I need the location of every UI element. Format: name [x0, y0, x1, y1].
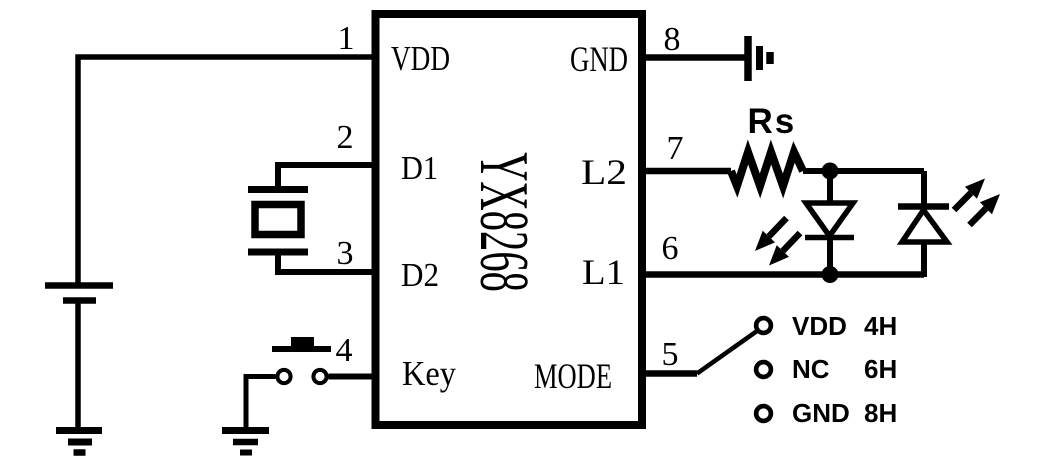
wire pin8 GND — [642, 54, 748, 61]
svg-text:8H: 8H — [864, 398, 897, 428]
svg-text:6: 6 — [662, 230, 679, 267]
wire pin2 D1 to crystal — [278, 165, 375, 190]
wire resistor to LED node — [803, 168, 924, 174]
LED2 cathode bar — [898, 203, 949, 210]
wire pin4 Key to button — [329, 374, 376, 380]
LED1 triangle — [806, 203, 853, 236]
crystal Y1 top plate — [248, 186, 308, 193]
pushbutton S1 bar — [272, 346, 331, 352]
LED2 emission arrow upper — [954, 179, 985, 211]
svg-text:D2: D2 — [401, 257, 439, 294]
wire node to LED1 anode — [827, 171, 833, 205]
svg-text:NC: NC — [792, 354, 830, 384]
ground (pin8, rotated) — [748, 36, 770, 81]
junction node top — [822, 163, 839, 180]
svg-text:7: 7 — [667, 130, 684, 167]
wire button to ground — [246, 377, 276, 431]
IC U1 body — [376, 14, 643, 425]
wire pin7 L2 to resistor — [642, 168, 731, 175]
wire LED1 cathode to L1 — [827, 238, 833, 275]
resistor Rs — [731, 152, 803, 186]
LED1 cathode bar — [805, 235, 854, 241]
crystal Y1 bottom plate — [248, 249, 308, 256]
LED1 emission arrow upper — [755, 218, 787, 251]
switch contact NC — [756, 362, 771, 377]
svg-text:GND: GND — [570, 39, 628, 79]
svg-text:4: 4 — [336, 332, 353, 369]
pushbutton S1 cap — [291, 337, 314, 347]
LED2 triangle — [902, 210, 947, 242]
battery BT1 short plate — [63, 297, 96, 304]
battery BT1 long plate — [45, 282, 113, 289]
svg-text:VDD: VDD — [391, 39, 450, 78]
junction node bottom — [822, 266, 839, 283]
wire L1 line — [642, 271, 924, 278]
wire node to LED2 branch top — [921, 171, 927, 206]
svg-text:GND: GND — [792, 398, 850, 428]
wire pin3 D2 to crystal — [278, 252, 375, 272]
svg-text:1: 1 — [338, 20, 355, 57]
svg-text:MODE: MODE — [534, 356, 612, 396]
crystal Y1 body — [255, 205, 301, 235]
pushbutton S1 left contact — [277, 370, 290, 383]
svg-text:5: 5 — [662, 336, 679, 373]
svg-text:6H: 6H — [864, 354, 897, 384]
ground (battery) — [56, 431, 102, 453]
pushbutton S1 right contact — [313, 370, 326, 383]
svg-text:D1: D1 — [401, 150, 438, 187]
switch contact GND — [756, 406, 771, 421]
svg-text:8: 8 — [664, 21, 681, 58]
svg-text:L2: L2 — [581, 152, 627, 192]
ground (button) — [222, 431, 269, 453]
wire pin5 MODE — [642, 370, 697, 377]
svg-text:4H: 4H — [864, 311, 897, 341]
wire battery to ground — [75, 301, 81, 430]
svg-text:YX8268: YX8268 — [465, 152, 542, 292]
wire LED2 anode to L1 — [921, 242, 927, 277]
svg-text:VDD: VDD — [792, 311, 847, 341]
LED1 emission arrow lower — [769, 233, 800, 266]
switch contact VDD — [756, 318, 771, 333]
svg-text:L1: L1 — [582, 252, 625, 292]
switch lever — [697, 331, 757, 374]
svg-text:Rs: Rs — [748, 102, 797, 141]
svg-text:3: 3 — [337, 235, 354, 272]
wire pin1 VDD to battery — [78, 57, 375, 285]
svg-text:2: 2 — [337, 119, 354, 156]
LED2 emission arrow lower — [970, 194, 1001, 225]
svg-text:Key: Key — [402, 354, 456, 393]
